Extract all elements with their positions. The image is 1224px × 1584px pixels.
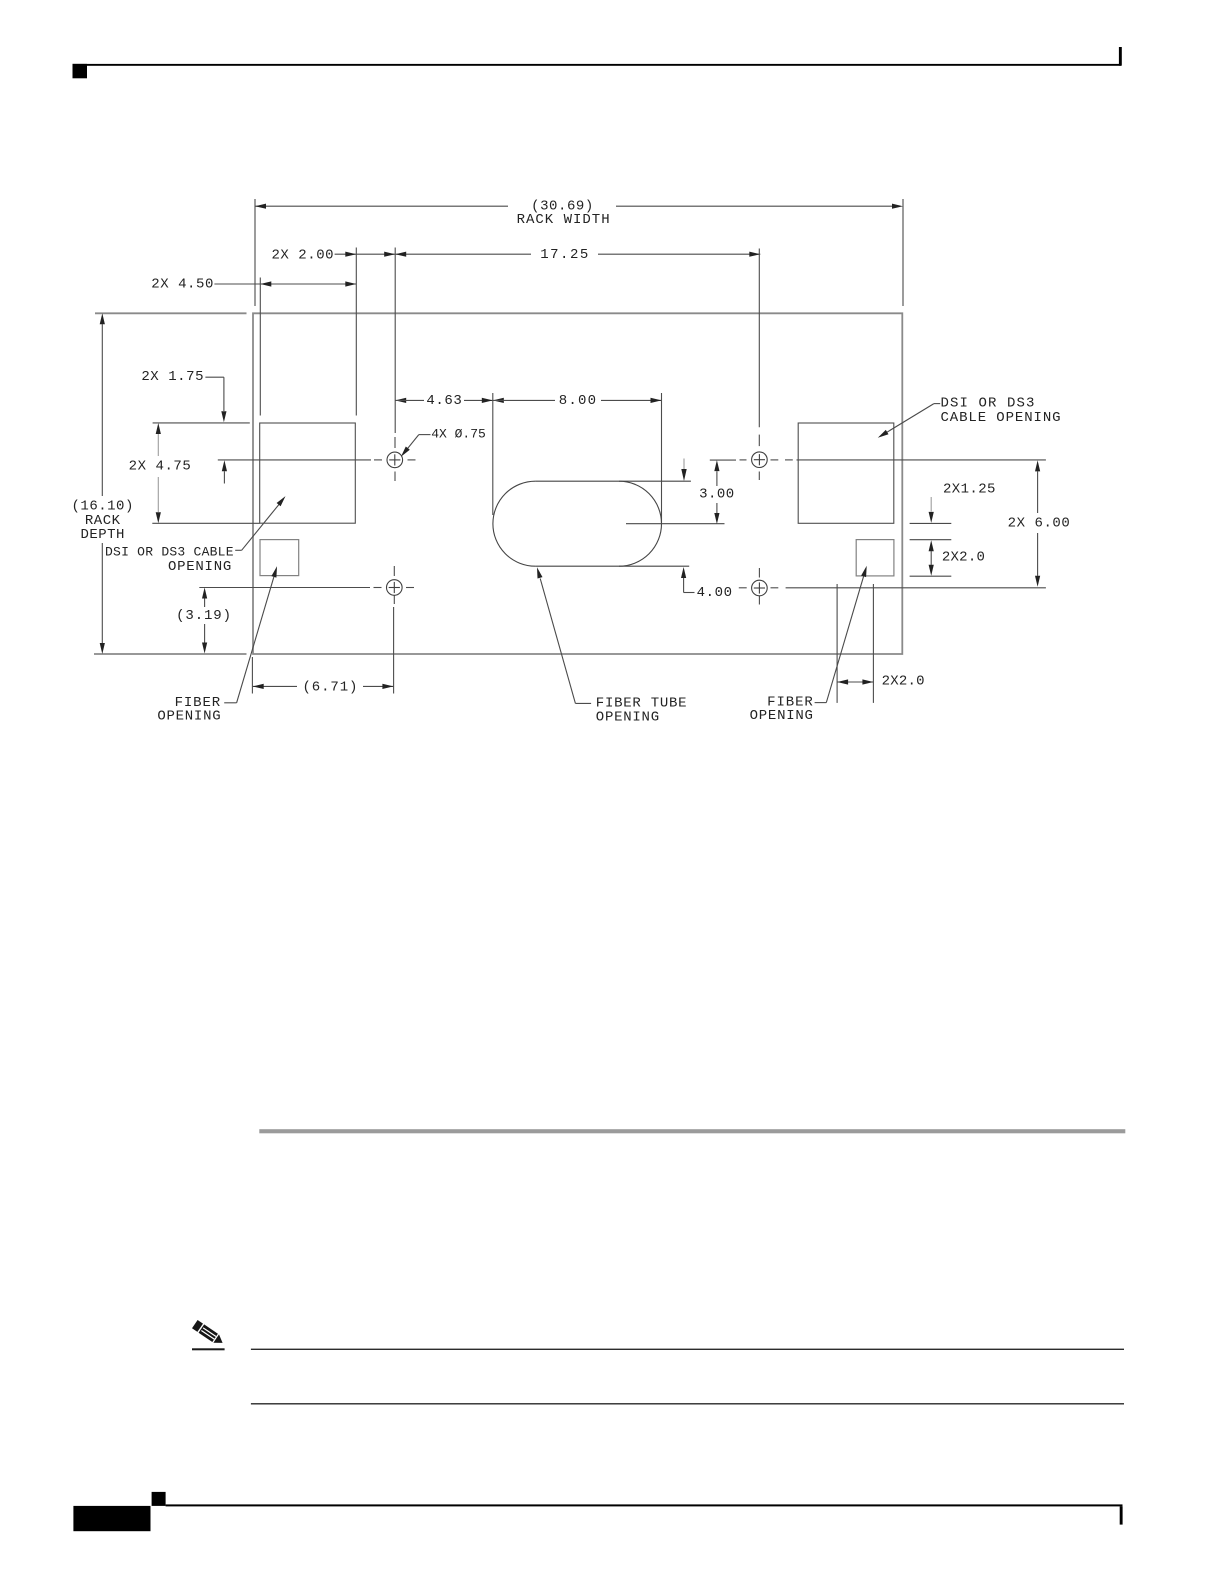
svg-text:2X 6.00: 2X 6.00 [1008,515,1071,531]
svg-text:DSI OR DS3: DSI OR DS3 [941,395,1036,411]
rack top extension line [95,312,247,314]
svg-text:2X 1.75: 2X 1.75 [141,369,204,385]
svg-text:2X 2.00: 2X 2.00 [271,248,334,264]
svg-text:17.25: 17.25 [540,247,590,263]
svg-text:OPENING: OPENING [168,559,232,575]
svg-text:2X2.0: 2X2.0 [942,549,985,565]
svg-text:4X Ø.75: 4X Ø.75 [431,427,486,442]
dimension 2X 6.00 [1006,460,1073,586]
mounting hole lower-right [752,580,768,596]
section divider rule (gray) [259,1129,1125,1133]
footer black bar [73,1506,150,1531]
footer small black square [152,1492,166,1506]
dimension 2X 2.00 [271,248,395,264]
label DS1 OR DS3 CABLE OPENING (left) [105,496,286,575]
dimension 8.00 [493,393,662,523]
svg-text:2X2.0: 2X2.0 [882,674,925,690]
dimension 4.00 [681,567,733,601]
label FIBER TUBE OPENING [537,567,687,725]
dimension 2X 1.75 [141,369,227,483]
DS1/DS3 cable opening (right rectangle) [798,423,894,523]
note bottom rule [251,1403,1124,1404]
svg-text:4.63: 4.63 [426,393,462,409]
dimension 2X 4.50 [151,248,356,416]
svg-text:RACK WIDTH: RACK WIDTH [517,212,611,228]
lower-left hole centerline (vertical dashes) [393,566,395,604]
label 4X Ø.75 [401,427,486,457]
svg-text:(6.71): (6.71) [302,679,358,695]
extension line x=395 [394,248,396,434]
upper-right hole centerline (horizontal) [740,459,1046,461]
svg-text:DEPTH: DEPTH [80,527,125,543]
mounting hole lower-left [387,580,403,596]
dimension 2X2.0 (square height) [910,540,986,577]
header black square [73,64,88,79]
svg-text:OPENING: OPENING [157,708,221,724]
footer right tick [1120,1506,1123,1524]
note top rule [251,1349,1124,1350]
rack bottom extension line [94,653,247,655]
lower-right hole centerline (vertical dashes) [758,568,760,605]
note icon (pencil) [192,1320,225,1350]
dimension 2X 4.75 [127,423,194,523]
svg-text:3.00: 3.00 [699,487,735,503]
dimension (6.71) [252,607,393,695]
dimension 2X1.25 [910,482,996,524]
lower-right hole centerline (horizontal) [739,587,1046,589]
svg-text:4.00: 4.00 [697,585,733,601]
upper-right hole centerline (vertical) [758,249,760,481]
label DS1 OR DS3 CABLE OPENING (right) [878,395,1062,437]
label FIBER OPENING (left) [157,566,277,724]
fiber tube opening (oval) [493,481,691,566]
fiber opening (left square) [260,540,299,576]
svg-text:OPENING: OPENING [596,710,660,726]
dimension (3.19) [174,588,234,654]
DS1/DS3 cable opening (left rectangle) [260,423,356,523]
oval centerline [626,523,725,525]
dimension 4.63 [395,393,493,409]
upper-left hole centerline (vertical dashes) [394,437,396,481]
svg-text:2X1.25: 2X1.25 [943,482,996,498]
arrow to oval top edge [681,459,686,482]
svg-text:8.00: 8.00 [559,393,597,409]
svg-text:CABLE OPENING: CABLE OPENING [941,410,1062,426]
svg-text:2X 4.75: 2X 4.75 [129,459,192,475]
fiber opening (right square) [856,540,894,576]
svg-text:DSI OR DS3 CABLE: DSI OR DS3 CABLE [105,544,234,559]
dimension 2X2.0 (bottom) [837,584,925,703]
lower-left hole centerline (horizontal) [199,587,414,589]
svg-text:(3.19): (3.19) [176,608,232,624]
label FIBER OPENING (right) [750,566,867,724]
dimension 17.25 [395,247,760,263]
dimension (30.69) RACK WIDTH [255,199,903,307]
mounting hole upper-left [387,452,403,468]
header rule [87,64,1121,66]
header right tick [1119,47,1122,66]
svg-text:OPENING: OPENING [750,708,814,724]
dimension 3.00 [697,460,737,524]
upper-left hole centerline (horizontal) [218,459,416,461]
mounting hole upper-right [752,452,768,468]
rack outline [253,313,902,654]
footer rule [166,1504,1123,1506]
dimension (16.10) RACK DEPTH [70,313,136,654]
rect top extension line [153,422,250,424]
rect bottom extension line [152,522,259,524]
svg-text:2X 4.50: 2X 4.50 [151,276,214,292]
